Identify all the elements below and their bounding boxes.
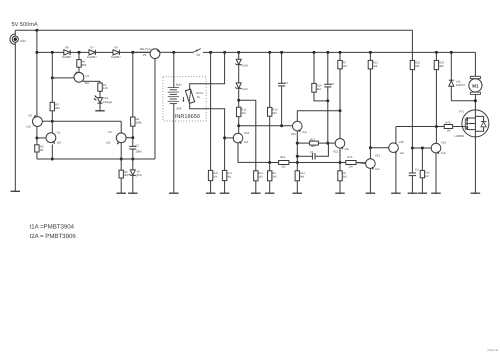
- svg-text:300: 300: [82, 63, 87, 67]
- junction C2 node: [280, 124, 283, 127]
- svg-text:V16: V16: [441, 140, 447, 144]
- svg-text:t1A: t1A: [441, 151, 445, 155]
- junction rail2 colC: [51, 51, 54, 54]
- label V12: [244, 131, 250, 144]
- wire R4 to node: [132, 126, 134, 138]
- label V15: [399, 140, 405, 155]
- label V16: [441, 140, 447, 154]
- svg-text:56k: 56k: [415, 65, 420, 68]
- diode V14: [449, 52, 454, 100]
- diode V8: [64, 50, 70, 55]
- label R18b: [300, 172, 305, 178]
- label R17: [310, 138, 316, 148]
- junction V11m base node: [326, 142, 329, 145]
- ground for VT1: [471, 192, 481, 194]
- ground for battery: [169, 192, 179, 194]
- svg-text:1N4007: 1N4007: [111, 55, 121, 59]
- label R6: [124, 170, 129, 177]
- svg-text:C1: C1: [135, 143, 139, 147]
- connector XS1: [10, 34, 18, 45]
- resistor R5: [77, 52, 81, 72]
- svg-text:V13: V13: [375, 153, 381, 157]
- svg-text:XS1: XS1: [20, 39, 26, 43]
- wire R20 to gate: [453, 126, 463, 128]
- svg-text:210: 210: [281, 165, 286, 168]
- label R7: [343, 62, 348, 68]
- label XS1: [20, 39, 26, 43]
- junction V16 base node: [411, 147, 414, 150]
- zener diode V5: [129, 159, 136, 193]
- svg-text:V12: V12: [244, 131, 250, 135]
- junction motor bottom: [474, 99, 477, 102]
- wire rail2 mid segment: [203, 51, 476, 53]
- label R3: [55, 103, 60, 110]
- svg-text:V2: V2: [28, 114, 32, 118]
- transistor V3: [116, 133, 133, 159]
- svg-text:V6: V6: [114, 46, 118, 50]
- svg-text:M1: M1: [472, 84, 479, 89]
- label R2: [40, 145, 44, 152]
- label HL1: [103, 96, 113, 104]
- label R11b: [258, 172, 263, 178]
- label C5: [310, 150, 314, 154]
- junction rail2 col210: [209, 51, 212, 54]
- resistor R7: [338, 52, 342, 110]
- resistor R12: [237, 100, 241, 116]
- transistor VT1 mosfet: [462, 110, 489, 137]
- thermistor NTC1: [182, 89, 194, 103]
- svg-text:3k4: 3k4: [373, 65, 378, 68]
- wire C3 down to base node: [327, 101, 329, 143]
- wire NTC top to rail2: [190, 52, 225, 90]
- switch S2: [193, 49, 201, 53]
- junction rail2 zener top: [237, 51, 240, 54]
- svg-text:V11: V11: [333, 149, 338, 153]
- svg-text:3V8: 3V8: [176, 107, 181, 111]
- svg-text:30: 30: [40, 148, 44, 152]
- svg-text:1N4007: 1N4007: [87, 55, 97, 59]
- svg-text:t1A: t1A: [400, 151, 404, 155]
- junction V3 collector rail3: [120, 158, 123, 161]
- svg-text:C5: C5: [310, 150, 314, 154]
- wire R20b to ground: [210, 181, 212, 194]
- transistor V4: [52, 72, 84, 83]
- resistor R21b: [222, 170, 226, 180]
- junction rail2 R5 top: [78, 51, 81, 54]
- junction on top rail: [35, 29, 38, 32]
- transistor V9: [133, 49, 174, 159]
- label R16: [317, 85, 322, 91]
- junction V11 emitter rail4: [339, 161, 342, 164]
- capacitor C3: [324, 52, 331, 101]
- svg-text:1N4007: 1N4007: [456, 84, 466, 87]
- svg-text:3V9: 3V9: [137, 173, 142, 177]
- transistor V15: [370, 127, 398, 194]
- svg-text:2V8: 2V8: [243, 64, 248, 67]
- junction V12 base node: [223, 136, 226, 139]
- resistor R22: [410, 60, 414, 69]
- wire V4 collector: [84, 81, 100, 83]
- svg-text:9k4: 9k4: [300, 176, 305, 179]
- drawing number: [487, 349, 499, 352]
- junction t1 emitter rail3: [51, 158, 54, 161]
- junction R10 rail4: [268, 161, 271, 164]
- resistor R10: [268, 52, 272, 162]
- svg-text:C3: C3: [330, 82, 334, 86]
- svg-text:Charge: Charge: [103, 100, 113, 104]
- label VT1 type: [454, 134, 464, 138]
- label R5: [82, 59, 87, 66]
- svg-text:100n: 100n: [135, 149, 142, 153]
- label V9: [143, 53, 147, 57]
- junction rail2 R23: [435, 51, 438, 54]
- svg-text:3k0: 3k0: [272, 176, 277, 179]
- junction gate R23: [435, 125, 438, 128]
- wire source to ground: [474, 137, 476, 193]
- svg-text:t2A = PMBT3906: t2A = PMBT3906: [30, 233, 77, 240]
- label NTC1: [196, 91, 204, 99]
- ground for R6: [116, 192, 126, 194]
- svg-text:3k3: 3k3: [343, 176, 348, 179]
- wire V16 base line: [412, 147, 431, 149]
- label V11z: [243, 88, 248, 91]
- wire rail2 to motor: [474, 52, 476, 76]
- wire comparator node: [239, 125, 293, 127]
- resistor R4: [131, 117, 135, 126]
- svg-text:t1A: t1A: [57, 140, 61, 144]
- svg-text:9k1: 9k1: [227, 175, 232, 178]
- wire NTC bottom out: [190, 103, 225, 171]
- wire R3 to node: [51, 111, 53, 121]
- svg-text:t1A =PMBT3904: t1A =PMBT3904: [30, 223, 75, 230]
- ground for R21b: [220, 192, 230, 194]
- label C3: [330, 82, 334, 86]
- svg-text:70864-49: 70864-49: [487, 349, 499, 352]
- junction rail2 R13: [369, 51, 372, 54]
- zener diode V10z: [235, 52, 242, 82]
- label S2: [196, 53, 200, 57]
- wire top rail corner down: [411, 30, 413, 60]
- transistor V10m: [292, 111, 302, 163]
- label V5: [137, 170, 142, 177]
- svg-text:V9: V9: [143, 53, 147, 57]
- resistor R11b: [254, 171, 258, 181]
- svg-text:t2A: t2A: [27, 125, 31, 129]
- wire colB rail2 to V2: [36, 52, 38, 116]
- label V8 value: [62, 55, 72, 59]
- label C4: [415, 168, 419, 172]
- label V2: [27, 114, 33, 129]
- svg-text:INR18650: INR18650: [175, 114, 200, 120]
- wire R11b ground: [255, 181, 257, 193]
- capacitor C4: [409, 148, 416, 193]
- wire R21b to ground: [224, 181, 226, 194]
- resistor R15: [346, 161, 356, 165]
- junction zener bottom: [237, 99, 240, 102]
- svg-text:130: 130: [348, 165, 353, 168]
- label V6: [114, 46, 118, 50]
- label VT1: [459, 110, 465, 114]
- junction V15 base node: [369, 146, 372, 149]
- junction rail2 R16: [313, 51, 316, 54]
- ground for R20b: [206, 192, 216, 194]
- label V7 value: [87, 55, 97, 59]
- ground for HL1: [95, 110, 105, 112]
- wire XS1 top stub: [14, 30, 16, 36]
- transistor V13: [356, 148, 375, 194]
- svg-text:V4: V4: [85, 74, 89, 78]
- svg-text:R17: R17: [310, 138, 315, 141]
- ground for V16: [431, 192, 441, 194]
- label R4: [136, 117, 143, 124]
- wire top rail 5V: [15, 29, 412, 31]
- svg-text:100k: 100k: [136, 120, 143, 124]
- svg-text:t1A: t1A: [244, 140, 248, 144]
- node 5V input label: [12, 22, 38, 28]
- resistor R6: [119, 159, 123, 193]
- junction C1 rail3: [131, 158, 134, 161]
- label R22: [415, 62, 420, 68]
- svg-text:V10: V10: [291, 132, 297, 136]
- ground for C4: [408, 192, 418, 194]
- svg-text:5V 500mA: 5V 500mA: [12, 22, 38, 28]
- ground for R9b: [265, 192, 275, 194]
- wire collector bus: [297, 110, 340, 112]
- svg-text:C2: C2: [284, 81, 288, 85]
- wire battery minus to ground: [173, 104, 175, 194]
- svg-text:S2: S2: [196, 53, 200, 57]
- junction rail2 NTC top: [223, 51, 226, 54]
- ground for R8b: [335, 192, 345, 194]
- label V10m: [291, 130, 307, 136]
- wire XS1 to ground: [14, 43, 16, 192]
- ground for R19: [418, 192, 428, 194]
- capacitor C2: [278, 52, 285, 125]
- label V13: [375, 153, 381, 170]
- junction R16 C3: [326, 99, 329, 102]
- svg-text:1k3: 1k3: [258, 176, 263, 179]
- resistor R13c: [368, 52, 372, 147]
- svg-text:LR8602: LR8602: [454, 134, 464, 138]
- svg-text:V3: V3: [108, 130, 112, 134]
- label C2: [284, 81, 288, 85]
- resistor R20b: [208, 170, 212, 180]
- junction rail2 R7: [339, 51, 342, 54]
- capacitor C5: [297, 143, 328, 160]
- wire HL1 to ground: [99, 103, 101, 110]
- label V9 type: [140, 47, 151, 51]
- label R13c: [373, 62, 378, 68]
- svg-text:R15: R15: [347, 156, 352, 159]
- svg-text:10k: 10k: [213, 175, 218, 178]
- svg-text:8k2: 8k2: [311, 145, 316, 148]
- junction V12 collector node: [237, 124, 240, 127]
- wire R22 down: [411, 70, 413, 148]
- diode V7: [89, 50, 95, 55]
- transistor V1: [37, 121, 56, 159]
- svg-text:5k6: 5k6: [272, 112, 277, 115]
- junction rail2 V14: [450, 51, 453, 54]
- label R20b: [213, 172, 218, 178]
- label R8b: [343, 172, 348, 178]
- junction V10 emitter R17 tap: [296, 142, 299, 145]
- label V4: [85, 74, 89, 85]
- label V14: [456, 81, 466, 87]
- svg-text:8k2: 8k2: [317, 88, 322, 91]
- ground for V5: [128, 192, 138, 194]
- wire battery plus: [173, 52, 175, 87]
- wire rail2 left segment: [37, 51, 150, 53]
- resistor R2: [35, 138, 39, 159]
- wire rail4 mid: [289, 162, 346, 164]
- svg-text:BD-P14: BD-P14: [140, 47, 151, 51]
- junction rail2 battery plus: [172, 51, 175, 54]
- svg-text:t2A: t2A: [106, 141, 110, 145]
- wire rail4 left: [270, 162, 279, 164]
- label C1: [135, 143, 142, 153]
- svg-text:R20: R20: [445, 122, 450, 125]
- svg-text:8k6: 8k6: [55, 106, 60, 110]
- wire rail3: [37, 158, 155, 160]
- wire rail2 battery to switch: [174, 51, 193, 53]
- junction V10 emitter rail4: [296, 161, 299, 164]
- wire latch node to V3 emitter: [52, 121, 121, 133]
- battery cell Bat1: [168, 88, 179, 104]
- wire R12 to V12 node: [238, 117, 240, 126]
- zener diode V11z: [235, 83, 242, 100]
- label R21b: [227, 172, 232, 178]
- label R15: [347, 156, 353, 168]
- label V7: [90, 46, 94, 50]
- resistor R20: [444, 125, 452, 129]
- transistor V11m: [328, 111, 345, 163]
- ground for R18b: [293, 192, 303, 194]
- wire top rail to rail2: [36, 30, 38, 52]
- svg-text:Bat1: Bat1: [176, 83, 182, 87]
- motor M1: [469, 76, 482, 94]
- svg-text:VT1: VT1: [459, 110, 465, 114]
- resistor R23: [434, 52, 438, 126]
- junction V10 emitter C5 tap: [296, 155, 299, 158]
- junction R19 tap: [421, 147, 424, 150]
- label R19: [425, 171, 430, 177]
- svg-text:140: 140: [103, 86, 108, 90]
- LED HL1: [94, 96, 103, 104]
- svg-text:V15: V15: [399, 140, 405, 144]
- transistor V16: [431, 127, 441, 194]
- label V1: [57, 130, 62, 144]
- transistor V2: [33, 115, 53, 138]
- label R14: [280, 156, 286, 168]
- resistor R19: [420, 148, 424, 193]
- svg-text:t1A: t1A: [375, 167, 379, 171]
- label V10z: [243, 64, 248, 67]
- label R12: [241, 108, 246, 114]
- resistor R8b: [338, 163, 342, 194]
- label R23: [439, 62, 444, 68]
- label R9b: [272, 172, 277, 178]
- svg-text:1N4007: 1N4007: [62, 55, 72, 59]
- junction rail2 C3: [326, 51, 329, 54]
- legend transistor types: [30, 223, 77, 240]
- ground for V15: [391, 192, 401, 194]
- svg-text:V1: V1: [57, 130, 61, 134]
- resistor R16: [312, 52, 328, 101]
- label V3: [106, 130, 112, 144]
- junction t1 base node: [35, 137, 38, 140]
- svg-text:C4: C4: [415, 168, 419, 172]
- ground for XS1: [11, 190, 20, 192]
- battery pack outline INR18650: [163, 77, 206, 121]
- label R20: [445, 122, 451, 133]
- label battery voltage 3V8: [176, 107, 181, 111]
- svg-text:47k: 47k: [241, 112, 246, 115]
- wire rail2 to R4: [132, 52, 134, 117]
- resistor R18b: [295, 171, 299, 193]
- svg-text:R14: R14: [280, 156, 285, 159]
- wire rail4 to V13 base: [356, 162, 366, 164]
- wire colC rail2 to base: [51, 52, 53, 102]
- resistor R1: [98, 83, 102, 91]
- svg-text:HL1: HL1: [103, 96, 109, 100]
- label INR18650: [175, 114, 200, 120]
- ground for R11b: [251, 192, 260, 194]
- ground for V13: [366, 192, 376, 194]
- label V8: [65, 46, 69, 50]
- wire zener node right: [239, 100, 256, 171]
- capacitor C1: [129, 138, 136, 159]
- svg-text:t1A: t1A: [345, 147, 349, 151]
- svg-text:t1A: t1A: [302, 130, 306, 134]
- svg-text:4V2: 4V2: [243, 88, 248, 91]
- wire below-rail ground resistor for V10: [296, 163, 298, 171]
- diode V6: [113, 50, 119, 55]
- resistor R3: [50, 102, 54, 111]
- junction V11 collector node: [339, 109, 342, 112]
- svg-text:4k7: 4k7: [425, 175, 430, 178]
- label V6 value: [111, 55, 121, 59]
- svg-text:680: 680: [439, 65, 444, 68]
- svg-text:3k0: 3k0: [124, 173, 129, 177]
- svg-text:V7: V7: [90, 46, 94, 50]
- wire motor to drain: [474, 94, 476, 110]
- junction V2 base node: [51, 120, 54, 123]
- wire col210 down: [210, 52, 212, 170]
- junction t5 base: [51, 76, 54, 79]
- svg-text:1k2: 1k2: [343, 65, 348, 68]
- resistor R9b: [268, 163, 272, 194]
- junction rail2 C2: [280, 51, 283, 54]
- resistor R14: [279, 161, 289, 165]
- label R10: [272, 109, 277, 115]
- svg-text:V8: V8: [65, 46, 69, 50]
- label Bat1: [176, 83, 182, 87]
- wire gate line: [396, 126, 444, 128]
- label R1: [103, 83, 108, 90]
- junction V3 base node: [131, 136, 134, 139]
- wire R1 to HL1: [99, 91, 101, 97]
- transistor V12: [225, 126, 270, 163]
- wire V14 to motor bottom: [451, 100, 475, 102]
- junction rail2 colB: [35, 51, 38, 54]
- junction rail2 col R4: [131, 51, 134, 54]
- resistor R17: [297, 141, 328, 145]
- label V11m: [333, 147, 349, 153]
- junction rail2 R10: [268, 51, 271, 54]
